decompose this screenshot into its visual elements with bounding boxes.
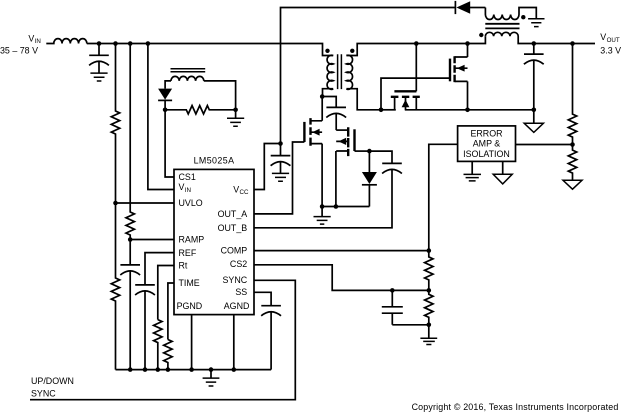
svg-text:IN: IN (35, 38, 41, 45)
capacitor C9 CS2 filter (382, 290, 403, 324)
wire T1 secondary bottom lead (346, 89, 381, 110)
node junction dot PGND (189, 367, 194, 372)
ground main controller (203, 370, 220, 386)
node junction dot D1-R4 (163, 108, 168, 113)
op-amp U1 LM5025A controller box (174, 169, 254, 314)
svg-text:CC: CC (240, 189, 249, 196)
transformer L2 core lines (485, 24, 519, 29)
wire Q3 gate cross drive (381, 78, 450, 110)
wire VCC pin feed (254, 144, 281, 190)
wire SS pin to C4 (254, 292, 271, 305)
svg-text:CS2: CS2 (230, 259, 247, 269)
svg-text:Rt: Rt (179, 261, 188, 271)
node junction dot ref cap gnd (143, 367, 148, 372)
ground input cap (90, 73, 107, 81)
transistor Q4 catch sync FET (381, 91, 534, 110)
node label UP/DOWN SYNC (31, 376, 74, 399)
capacitor C6 clamp (326, 107, 346, 130)
node junction dot COMP (427, 248, 432, 253)
wire Rt pin (158, 266, 174, 320)
node junction dot main ground tap (209, 367, 214, 372)
wire VIN pin feed (148, 44, 174, 190)
wire input rail VIN (87, 44, 333, 56)
resistor R7 feedback upper (568, 44, 576, 145)
node junction dot VOUT divider (570, 41, 575, 46)
node junction dot Q3 source gnd (465, 108, 470, 113)
node junction dot rail-VIN pin (146, 41, 151, 46)
node junction dot AGND (232, 367, 237, 372)
wire PGND to ground rail (191, 315, 193, 369)
svg-text:COMP: COMP (221, 246, 248, 256)
ground U2 bar style (464, 161, 482, 181)
node junction dot Rt gnd (156, 367, 161, 372)
wire COMP line (254, 250, 429, 252)
node pin label VCC (233, 184, 249, 196)
node junction dot feedback divider (570, 142, 575, 147)
svg-text:ERROR: ERROR (470, 128, 502, 138)
node junction dot Q2 source (334, 204, 339, 209)
svg-text:CS1: CS1 (179, 172, 196, 182)
wire UVLO pin (116, 202, 175, 204)
svg-text:RAMP: RAMP (179, 235, 205, 245)
wire CS2 node to resistor chain (392, 289, 429, 291)
transformer T1 bias winding core (171, 69, 206, 72)
svg-text:REF: REF (179, 248, 197, 258)
transformer T1 core (338, 54, 342, 89)
wire U2 output to COMP riser (429, 144, 458, 250)
wire VCC riser to reset loop (281, 8, 456, 144)
wire bias winding left lead (165, 81, 171, 89)
wire T1 secondary top to switch rail (346, 36, 485, 55)
node junction dot UVLO (113, 201, 118, 206)
resistor R5 Rt (154, 320, 162, 370)
node phasing dot choke main winding (479, 33, 483, 37)
resistor R3 RAMP feed (126, 44, 134, 240)
node phasing dot aux winding (521, 15, 525, 19)
wire CS2 line (254, 265, 392, 291)
node VOUT output label (600, 32, 621, 55)
svg-text:35 – 78 V: 35 – 78 V (0, 46, 38, 56)
svg-text:SYNC: SYNC (31, 389, 56, 399)
node junction dot CS2 filter (390, 288, 395, 293)
svg-text:LM5025A: LM5025A (194, 155, 235, 165)
wire Q2 gate lead (355, 150, 370, 152)
wire C9 bottom to CS gnd (392, 324, 429, 326)
capacitor C4 soft start (261, 306, 281, 370)
capacitor C5 VCC bypass (271, 144, 291, 174)
inductor L2 output choke main winding (485, 32, 595, 43)
wire U2 input from divider (516, 144, 573, 146)
resistor R9 CS upper (425, 251, 433, 291)
svg-text:PGND: PGND (177, 301, 203, 311)
capacitor C2 RAMP (120, 240, 140, 370)
transistor Q2 active clamp P-FET (336, 127, 355, 206)
resistor R1 UVLO upper (111, 44, 119, 204)
svg-text:SYNC: SYNC (223, 275, 248, 285)
node junction dot CS divider mid (427, 288, 432, 293)
inductor L1 input filter choke (46, 39, 87, 44)
svg-text:UP/DOWN: UP/DOWN (31, 376, 74, 386)
svg-text:AGND: AGND (224, 301, 250, 311)
node junction dot Q4 gate rail (414, 41, 419, 46)
svg-text:OUT_B: OUT_B (218, 223, 248, 233)
wire Q4 gate to rail (415, 44, 417, 92)
resistor R10 CS lower (425, 290, 433, 324)
inductor L2 top aux winding of output choke (485, 8, 536, 20)
ground VCC cap (272, 173, 289, 181)
svg-text:UVLO: UVLO (179, 198, 203, 208)
node junction dot output cap gnd (532, 108, 537, 113)
wire SYNC pin run (30, 280, 295, 399)
svg-text:ISOLATION: ISOLATION (463, 149, 510, 159)
transformer T1 secondary winding (346, 55, 352, 89)
node phasing dot T1 primary (325, 49, 329, 53)
wire T1 primary bottom lead (323, 89, 334, 97)
inductor T1 bias winding (171, 76, 204, 81)
wire TIME pin (168, 283, 174, 340)
resistor R4 bias load (165, 106, 236, 114)
wire RAMP pin (130, 239, 174, 241)
node junction dot ramp cap gnd (128, 367, 133, 372)
wire primary ground rail (322, 206, 369, 208)
node junction dot VCC (278, 141, 283, 146)
node pin label VIN (179, 182, 191, 194)
ground aux winding (528, 19, 544, 27)
wire bias winding right lead (204, 81, 236, 110)
capacitor C8 output (524, 44, 544, 110)
diode D3 reset loop (455, 1, 485, 14)
svg-text:V: V (28, 33, 34, 43)
ground U2 triangle style (493, 161, 512, 184)
svg-text:Copyright © 2016, Texas Instru: Copyright © 2016, Texas Instruments Inco… (412, 402, 619, 412)
svg-text:V: V (179, 182, 185, 192)
wire REF pin to C3 (145, 253, 174, 285)
node U2 text (463, 128, 510, 159)
transistor Q3 forward sync FET (450, 44, 468, 110)
transistor Q1 main switch (304, 97, 322, 207)
wire OUT_B drive (254, 169, 392, 227)
svg-text:3.3 V: 3.3 V (600, 45, 621, 55)
node VIN input label (0, 33, 41, 55)
ground bias network (227, 110, 244, 126)
node junction dot rail-RAMP resistor (128, 41, 133, 46)
svg-text:V: V (600, 32, 606, 42)
node junction dot RAMP (128, 237, 133, 242)
ground feedback divider triangle (563, 180, 582, 189)
svg-text:SS: SS (235, 287, 247, 297)
svg-text:OUT: OUT (607, 37, 620, 44)
transformer T1 primary winding (327, 55, 333, 89)
node junction dot sync node (379, 108, 384, 113)
op-amp U2 error amp and isolation box (458, 126, 516, 161)
node phasing dot T1 secondary (350, 49, 354, 53)
node junction dot rail-C1 (97, 41, 102, 46)
diode D1 bias rectifier (158, 89, 172, 110)
resistor R2 UVLO lower (111, 203, 119, 370)
node junction dot VOUT cap (532, 41, 537, 46)
capacitor C3 REF bypass (135, 285, 155, 370)
wire bottom ground rail (116, 369, 272, 371)
wire AGND to ground rail (233, 315, 235, 369)
capacitor C7 clamp gate coupling (369, 151, 402, 173)
node junction dot CS bottom (427, 323, 432, 328)
svg-text:TIME: TIME (179, 278, 200, 288)
resistor R8 feedback lower (568, 145, 576, 181)
svg-text:AMP &: AMP & (473, 139, 501, 149)
svg-text:V: V (233, 184, 239, 194)
wire clamp branch top (322, 97, 336, 108)
diode D2 clamp gate (362, 151, 377, 206)
ground CS network (420, 325, 437, 345)
node junction dot bias ground (233, 108, 238, 113)
resistor R6 TIME (164, 340, 172, 370)
wire CS1 pin feed (165, 110, 174, 177)
node junction dot rail-UVLO divider (113, 41, 118, 46)
ground primary power (314, 207, 331, 225)
node junction dot Q1 source (320, 204, 325, 209)
svg-text:OUT_A: OUT_A (218, 209, 248, 219)
capacitor C1 input bypass (89, 44, 109, 74)
node junction dot primary switch node (320, 94, 325, 99)
wire OUT_A gate drive (254, 142, 304, 214)
node junction dot Q2 gate network (367, 149, 372, 154)
ground output triangle (524, 110, 543, 133)
node junction dot TIME gnd (166, 367, 171, 372)
node junction dot Q3 drain rail (465, 41, 470, 46)
svg-text:IN: IN (185, 187, 191, 194)
